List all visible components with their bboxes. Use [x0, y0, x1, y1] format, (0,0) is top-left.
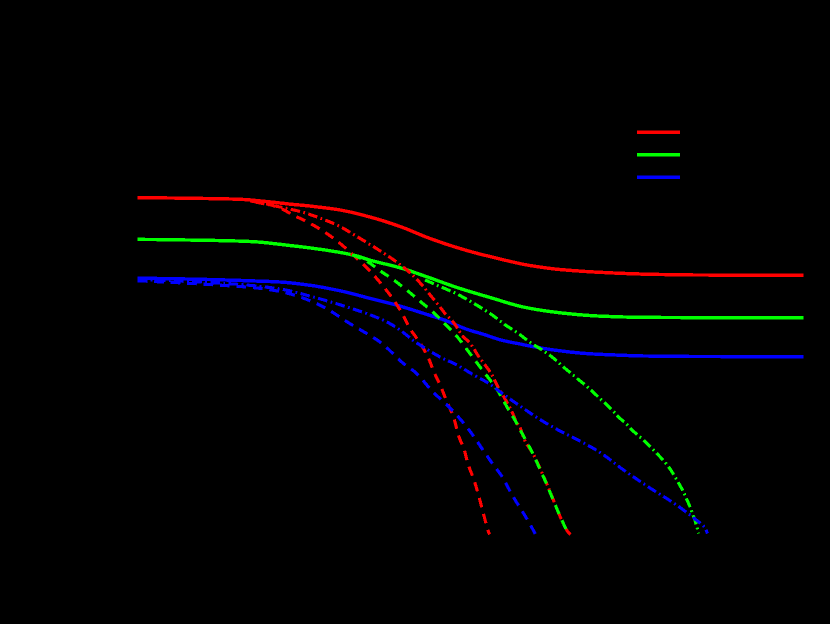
dash-dot green curve: [425, 280, 699, 534]
dash-dot blue curve: [138, 280, 708, 534]
legend green line: [637, 153, 680, 156]
dashed red curve: [250, 201, 490, 535]
solid green curve: [138, 239, 804, 317]
solid red curve: [138, 198, 804, 276]
dash-dot red curve: [255, 202, 571, 535]
legend blue line: [637, 176, 680, 179]
legend red line: [637, 131, 680, 134]
dashed green curve: [352, 255, 569, 535]
dashed blue curve: [138, 281, 536, 535]
solid blue curve: [138, 278, 804, 357]
